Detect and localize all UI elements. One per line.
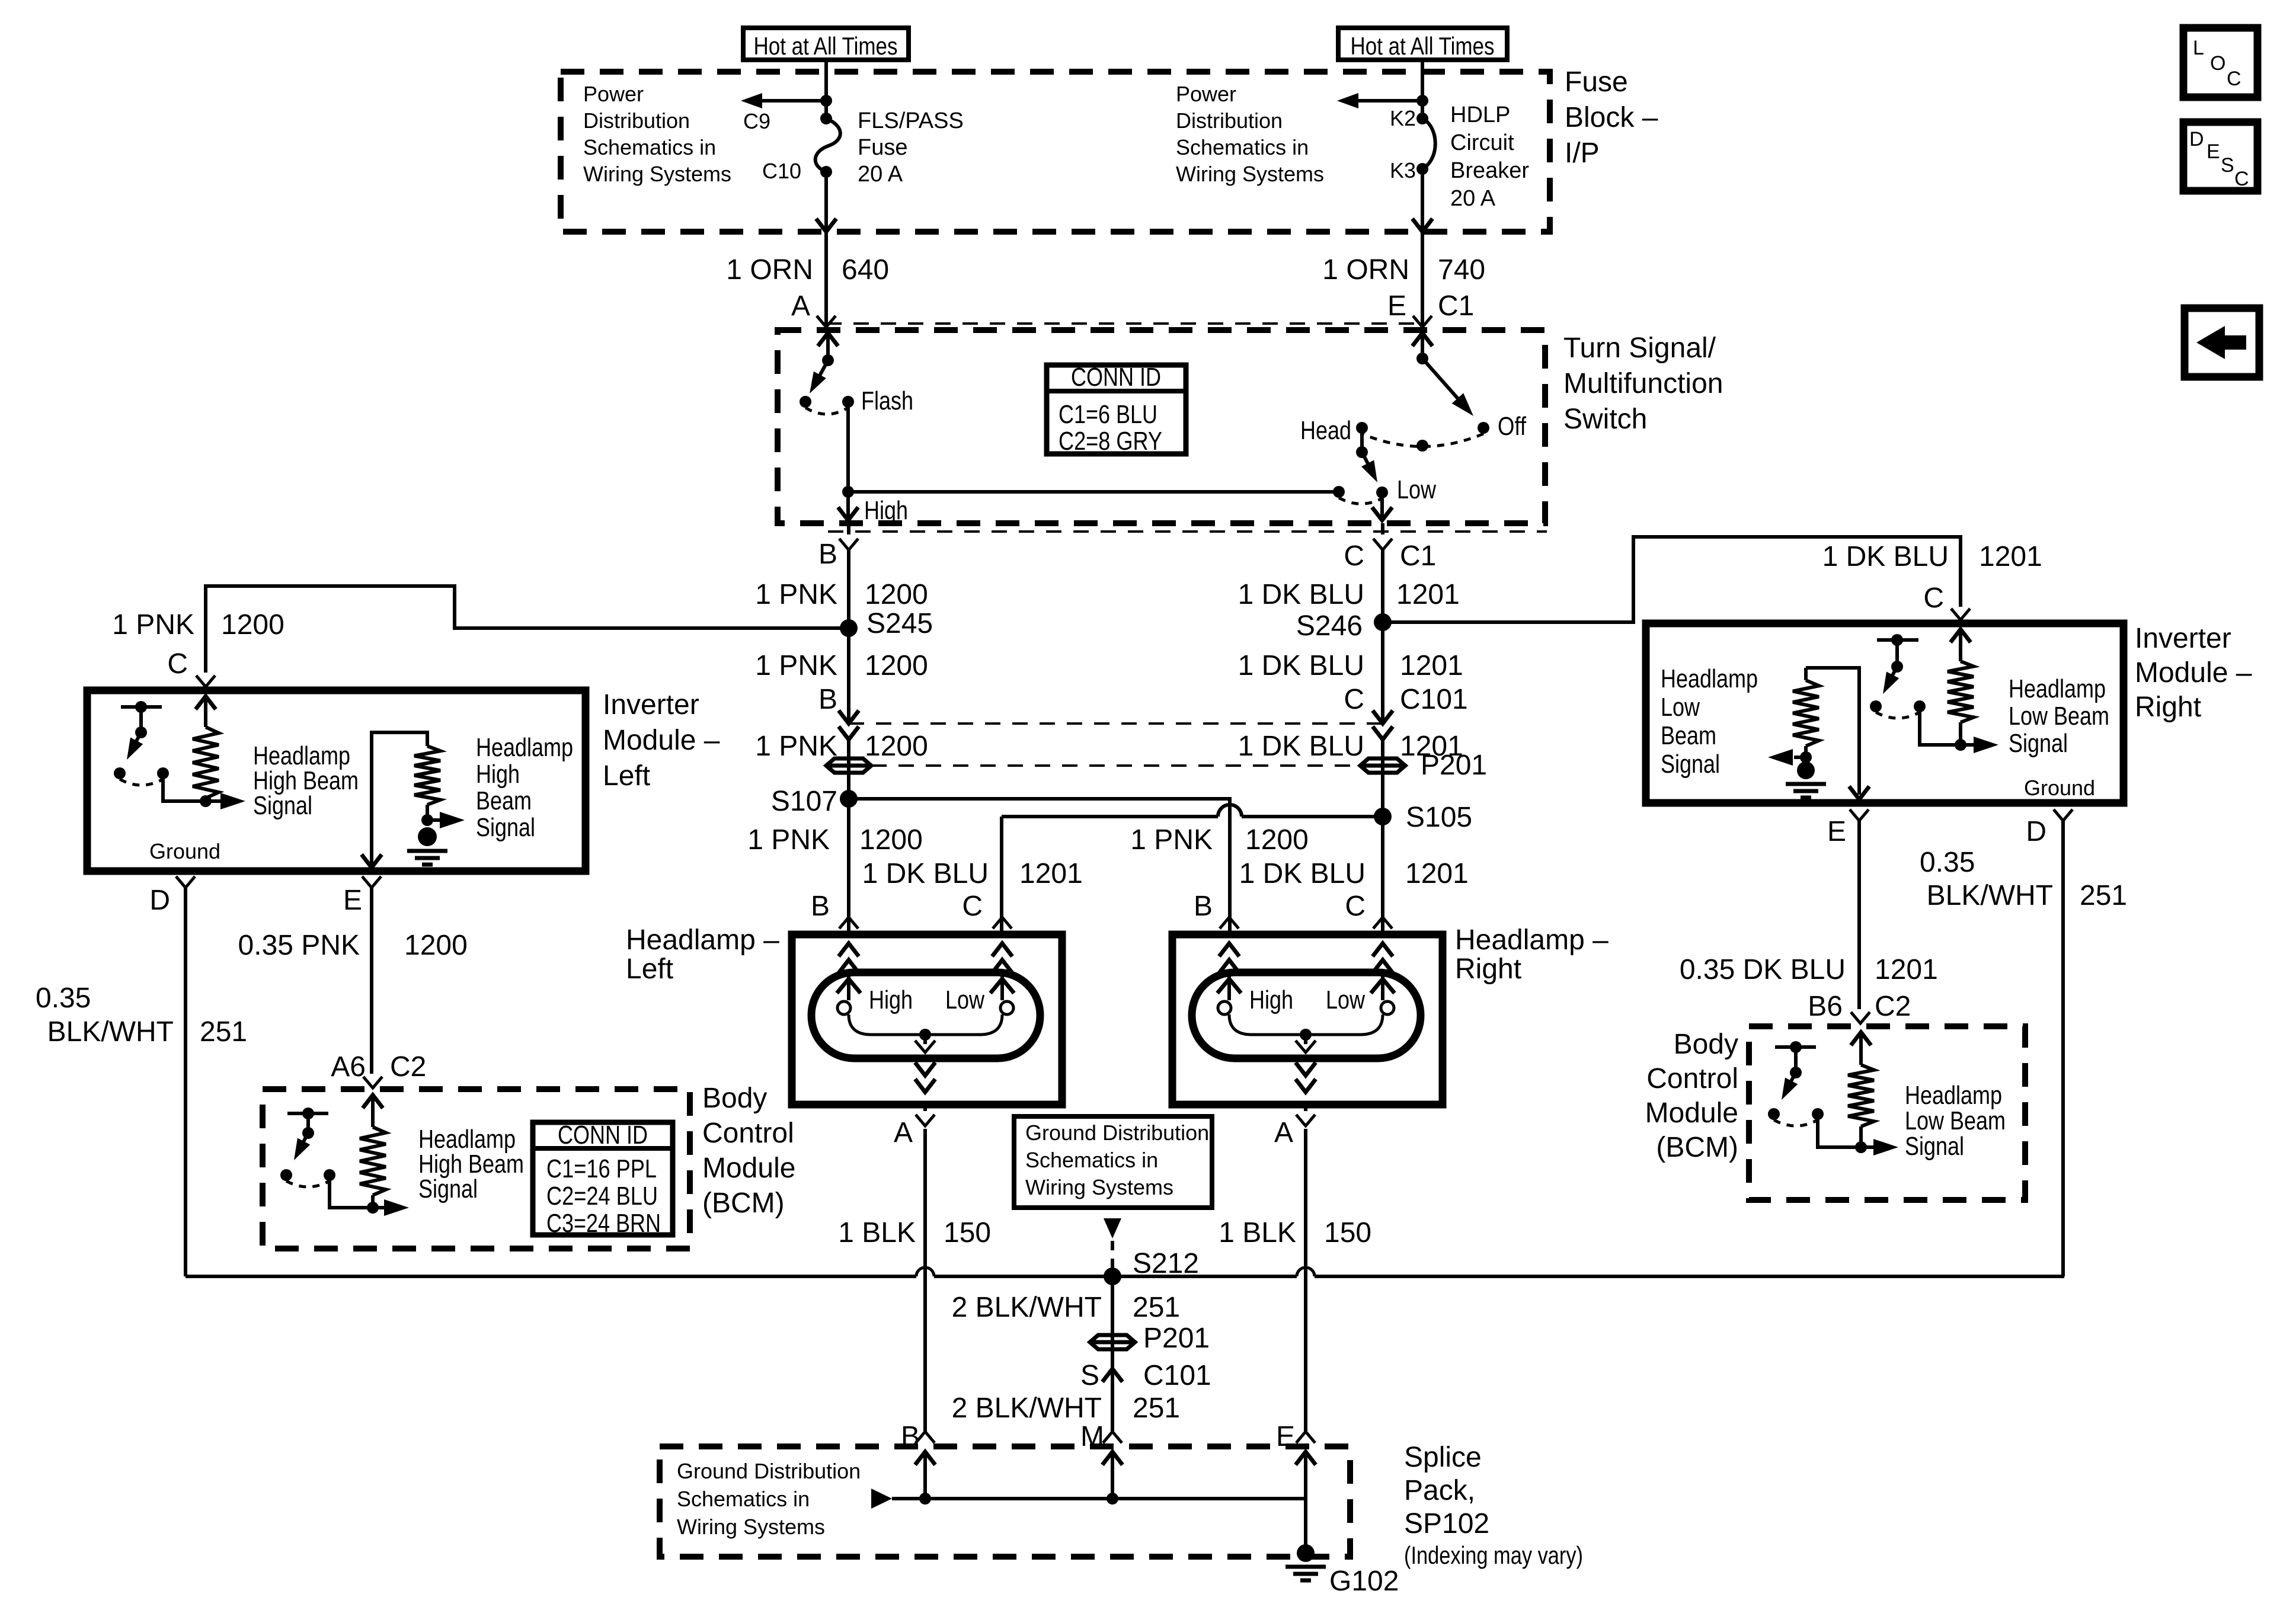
wire inverter-left E internal	[372, 732, 427, 866]
svg-text:1201: 1201	[1400, 650, 1463, 681]
wire splice to G102	[1304, 1499, 1307, 1547]
dashed wire to S212	[1111, 1241, 1114, 1269]
svg-text:G102: G102	[1329, 1566, 1399, 1597]
svg-text:C101: C101	[1400, 684, 1468, 715]
signal arrow (inv right)	[1961, 743, 1985, 747]
connector at splice E	[1296, 1432, 1315, 1443]
switch (BCM left)	[287, 1112, 328, 1115]
Hot at All Times box (right)	[1338, 28, 1507, 60]
svg-text:S: S	[2221, 154, 2234, 177]
svg-text:Low: Low	[1397, 475, 1436, 504]
svg-text:Low Beam: Low Beam	[1905, 1106, 2006, 1135]
svg-text:251: 251	[1133, 1393, 1180, 1424]
Body Control Module left dashed box	[263, 1089, 690, 1249]
entry arrow at E	[1412, 333, 1432, 346]
svg-text:Circuit: Circuit	[1450, 130, 1514, 155]
svg-text:A: A	[1274, 1117, 1293, 1148]
svg-text:1 BLK: 1 BLK	[1219, 1217, 1296, 1249]
svg-text:1 PNK: 1 PNK	[755, 579, 837, 610]
node S107	[840, 790, 858, 808]
wire from right Hot at All Times into fuse block	[1421, 60, 1424, 119]
exit arrow right feed	[1412, 219, 1432, 232]
connector P201 center symbol	[1090, 1335, 1135, 1349]
node end of High crossover	[1333, 486, 1345, 498]
svg-text:Power: Power	[583, 82, 644, 106]
svg-text:20 A: 20 A	[1450, 186, 1496, 211]
svg-text:B: B	[818, 539, 837, 570]
svg-text:S246: S246	[1296, 610, 1363, 642]
wire D right down to ground bus	[2063, 821, 2064, 1276]
ground bus wire	[186, 1275, 916, 1278]
connector at splice B	[916, 1432, 935, 1443]
arrow to Power Distribution Schematics (left)	[748, 99, 826, 103]
wire High crossover	[848, 490, 1339, 494]
svg-text:High: High	[476, 760, 520, 789]
entry arrow BCM-left	[363, 1095, 383, 1108]
exit arrow Low C	[1380, 492, 1384, 519]
svg-text:150: 150	[1324, 1217, 1371, 1249]
node Low contact	[1376, 486, 1388, 498]
svg-text:C2=8 GRY: C2=8 GRY	[1059, 427, 1162, 456]
connector C101 center	[1102, 1369, 1123, 1382]
svg-text:1 PNK: 1 PNK	[747, 824, 830, 856]
wire DK BLU 1201 main	[1381, 550, 1384, 724]
node splice B junction	[919, 1493, 931, 1505]
svg-text:1201: 1201	[1405, 858, 1469, 889]
svg-text:1200: 1200	[859, 824, 923, 856]
svg-text:Control: Control	[702, 1118, 794, 1149]
svg-text:Headlamp –: Headlamp –	[1455, 924, 1609, 956]
wire inverter-right E internal	[1806, 668, 1859, 795]
svg-text:1 PNK: 1 PNK	[755, 650, 837, 681]
wire S246 to inverter right	[1383, 537, 1961, 622]
svg-text:Headlamp: Headlamp	[476, 733, 573, 762]
connector C101 male arrows left	[839, 710, 859, 724]
svg-text:Beam: Beam	[476, 786, 532, 815]
svg-text:0.35 DK BLU: 0.35 DK BLU	[1680, 954, 1846, 985]
svg-text:Body: Body	[1674, 1029, 1738, 1060]
svg-text:Right: Right	[1455, 953, 1521, 985]
svg-text:1 DK BLU: 1 DK BLU	[1822, 541, 1949, 572]
svg-text:Inverter: Inverter	[603, 689, 699, 721]
svg-text:Wiring Systems: Wiring Systems	[677, 1515, 825, 1539]
svg-text:1 ORN: 1 ORN	[1322, 254, 1409, 286]
node Off contact	[1478, 422, 1489, 434]
svg-text:Signal: Signal	[1661, 750, 1720, 779]
node signal junction (BCM right)	[1859, 1126, 1863, 1147]
svg-text:C3=24 BRN: C3=24 BRN	[546, 1209, 661, 1238]
svg-text:0.35 PNK: 0.35 PNK	[238, 930, 360, 961]
svg-text:Ground Distribution: Ground Distribution	[677, 1459, 861, 1483]
svg-text:Wiring Systems: Wiring Systems	[1176, 162, 1324, 186]
flash switch arm	[817, 360, 828, 381]
entry arrow splice E	[1296, 1452, 1316, 1465]
svg-text:Module: Module	[1645, 1097, 1738, 1129]
entry arrow at A	[818, 333, 838, 346]
svg-text:A: A	[894, 1117, 913, 1148]
svg-text:E: E	[1827, 816, 1846, 847]
connector at splice M	[1103, 1432, 1122, 1443]
svg-text:Hot at All Times: Hot at All Times	[754, 32, 898, 60]
svg-text:Breaker: Breaker	[1450, 158, 1529, 183]
svg-text:(BCM): (BCM)	[702, 1188, 785, 1219]
entry arrow splice M	[1102, 1452, 1123, 1465]
svg-text:Low: Low	[1661, 693, 1700, 722]
svg-text:L: L	[2193, 37, 2204, 59]
svg-text:Ground: Ground	[2024, 776, 2095, 800]
connector P201 right symbol	[1360, 758, 1405, 773]
svg-text:Low: Low	[945, 985, 984, 1014]
svg-text:Splice: Splice	[1404, 1442, 1482, 1473]
Splice Pack SP102 dashed box	[660, 1446, 1350, 1557]
wire fuse to fuse-block edge	[824, 172, 828, 230]
pin D (inv right)	[2054, 809, 2073, 821]
icon DESC box	[2183, 122, 2257, 191]
svg-text:Right: Right	[2135, 692, 2201, 723]
resistor low-beam signal (right module)	[1804, 668, 1808, 680]
node S245	[840, 619, 858, 637]
dashed arc flash switch	[805, 408, 848, 414]
svg-text:B: B	[1194, 891, 1213, 922]
wire breaker to fuse-block edge	[1421, 169, 1424, 230]
connector at A	[817, 316, 836, 327]
svg-text:C2: C2	[1875, 991, 1911, 1022]
svg-text:C: C	[2234, 168, 2249, 190]
svg-text:(Indexing may vary): (Indexing may vary)	[1404, 1541, 1583, 1569]
node junction on right feed	[1416, 95, 1428, 107]
svg-text:K3: K3	[1390, 158, 1416, 183]
svg-text:C: C	[167, 648, 188, 680]
svg-text:Distribution: Distribution	[1176, 108, 1283, 133]
resistor high-beam signal (BCM left)	[360, 1127, 386, 1195]
svg-text:C1: C1	[1438, 290, 1474, 322]
svg-text:A: A	[791, 290, 810, 322]
svg-text:Switch: Switch	[1563, 404, 1647, 435]
svg-text:Off: Off	[1498, 412, 1527, 441]
svg-text:High: High	[864, 496, 908, 525]
svg-text:Low: Low	[1326, 985, 1365, 1014]
connector C101 dashed line	[849, 722, 1383, 725]
circuit breaker HDLP 20A symbol	[1416, 113, 1428, 124]
svg-text:Block –: Block –	[1565, 102, 1658, 133]
svg-text:2 BLK/WHT: 2 BLK/WHT	[952, 1393, 1102, 1424]
svg-text:1 ORN: 1 ORN	[726, 254, 813, 286]
switch (BCM right)	[1775, 1045, 1816, 1049]
CONN ID table (BCM left)	[533, 1122, 673, 1235]
svg-text:Signal: Signal	[253, 791, 312, 820]
svg-text:Schematics in: Schematics in	[583, 135, 716, 159]
low-beam relay switch (inv right)	[1877, 638, 1918, 642]
signal arrow 2 (inv left)	[427, 818, 452, 822]
svg-text:C10: C10	[762, 159, 801, 183]
wire PNK 1200 segment 1	[847, 550, 850, 724]
svg-text:1 PNK: 1 PNK	[1130, 824, 1213, 856]
head switch arm to Low	[1362, 452, 1370, 468]
node splice M junction	[1107, 1493, 1118, 1505]
svg-text:C101: C101	[1143, 1360, 1211, 1391]
svg-text:Flash: Flash	[861, 386, 913, 415]
svg-text:1200: 1200	[865, 579, 928, 610]
svg-text:CONN ID: CONN ID	[558, 1121, 648, 1150]
resistor high-beam signal (left module)	[414, 746, 440, 805]
svg-text:BLK/WHT: BLK/WHT	[47, 1016, 174, 1048]
svg-text:Distribution: Distribution	[583, 108, 690, 133]
wire A feed ORN 640	[824, 232, 828, 330]
pin D (inv left)	[176, 876, 195, 888]
svg-text:1 DK BLU: 1 DK BLU	[1238, 579, 1364, 610]
svg-text:0.35: 0.35	[1920, 847, 1975, 878]
ground symbol (inv right)	[1797, 761, 1815, 779]
svg-text:I/P: I/P	[1565, 137, 1600, 169]
svg-text:Headlamp: Headlamp	[2009, 674, 2106, 703]
wire right headlamp A to splice	[1304, 1129, 1307, 1432]
arrow to Power Distribution Schematics (right)	[1344, 99, 1422, 103]
svg-text:P201: P201	[1421, 750, 1487, 781]
wire D down to ground bus	[184, 888, 187, 1276]
svg-text:Signal: Signal	[2009, 729, 2068, 758]
svg-text:0.35: 0.35	[36, 982, 91, 1014]
signal arrow 2 (inv right)	[1794, 756, 1806, 759]
head switch pivot	[1416, 353, 1428, 364]
svg-text:Low Beam: Low Beam	[2009, 702, 2109, 731]
Turn Signal/Multifunction Switch dashed box	[778, 330, 1545, 523]
svg-text:Signal: Signal	[1905, 1132, 1964, 1161]
head switch lower pivot	[1356, 446, 1368, 458]
wire S245 branch to inverter left	[206, 586, 849, 673]
icon back-arrow box	[2185, 308, 2259, 377]
node S246	[1374, 613, 1392, 631]
svg-text:Pack,: Pack,	[1404, 1475, 1475, 1506]
svg-text:Module –: Module –	[603, 725, 720, 756]
svg-text:1200: 1200	[1245, 824, 1309, 856]
svg-text:Multifunction: Multifunction	[1563, 368, 1723, 399]
node junction on left feed	[820, 95, 832, 107]
svg-text:S107: S107	[771, 786, 837, 817]
svg-text:Schematics in: Schematics in	[677, 1487, 810, 1511]
dashed arc to Low contact	[1339, 498, 1382, 504]
connector at inverter-left C	[196, 676, 215, 687]
svg-text:1 DK BLU: 1 DK BLU	[1238, 650, 1364, 681]
node High junction	[842, 486, 854, 498]
svg-text:Left: Left	[603, 760, 650, 792]
svg-text:C1=6 BLU: C1=6 BLU	[1059, 400, 1157, 429]
pin E (inv right)	[1850, 809, 1869, 821]
svg-text:D: D	[2189, 128, 2204, 151]
wire E feed ORN 740	[1421, 232, 1424, 330]
svg-text:Beam: Beam	[1661, 721, 1716, 750]
svg-text:C2=24 BLU: C2=24 BLU	[546, 1182, 658, 1211]
svg-text:1200: 1200	[865, 731, 928, 762]
resistor low-beam signal (BCM right)	[1848, 1065, 1874, 1126]
svg-text:C: C	[1345, 891, 1366, 922]
svg-text:SP102: SP102	[1404, 1508, 1489, 1539]
pin E (inv left)	[362, 876, 381, 888]
connector at BCM-left	[363, 1077, 382, 1088]
svg-text:Schematics in: Schematics in	[1025, 1148, 1158, 1172]
high-beam relay switch (inv left)	[121, 705, 162, 709]
connector P201 left symbol	[826, 758, 871, 773]
svg-text:251: 251	[200, 1016, 247, 1048]
svg-text:1 DK BLU: 1 DK BLU	[862, 858, 989, 889]
svg-text:1 PNK: 1 PNK	[112, 609, 194, 641]
svg-text:Inverter: Inverter	[2135, 623, 2231, 654]
wire left headlamp C	[1002, 815, 1218, 818]
ground G102 symbol	[1297, 1544, 1315, 1562]
svg-text:HDLP: HDLP	[1450, 103, 1510, 127]
svg-text:K2: K2	[1390, 106, 1416, 130]
wire S107 to right headlamp B	[849, 799, 1230, 934]
svg-text:Hot at All Times: Hot at All Times	[1351, 32, 1495, 60]
flash switch common contact	[800, 396, 811, 408]
svg-text:Signal: Signal	[476, 813, 535, 842]
node signal junction (inv left)	[200, 795, 212, 807]
svg-text:1 BLK: 1 BLK	[838, 1217, 916, 1249]
wire S212 to splice M	[1111, 1276, 1114, 1432]
node S105	[1374, 808, 1392, 825]
svg-text:1200: 1200	[865, 650, 928, 681]
wire PNK below C101	[847, 740, 850, 934]
svg-text:1201: 1201	[1979, 541, 2042, 572]
svg-text:2 BLK/WHT: 2 BLK/WHT	[952, 1292, 1102, 1323]
svg-text:Module: Module	[702, 1153, 795, 1184]
Headlamp - Left box	[792, 934, 1062, 1105]
signal arrow (inv left)	[206, 799, 232, 803]
svg-text:640: 640	[842, 254, 889, 286]
svg-text:1 DK BLU: 1 DK BLU	[1238, 731, 1364, 762]
svg-text:(BCM): (BCM)	[1656, 1132, 1738, 1163]
svg-text:D: D	[149, 885, 170, 916]
svg-text:Turn Signal/: Turn Signal/	[1563, 332, 1716, 364]
svg-text:Headlamp: Headlamp	[1905, 1081, 2002, 1110]
wire Head contact stub	[1360, 428, 1364, 452]
connector P201 dashed line	[871, 764, 1360, 767]
Headlamp - Right box	[1172, 934, 1443, 1105]
svg-text:Wiring Systems: Wiring Systems	[1025, 1175, 1173, 1199]
exit arrow High B	[846, 492, 850, 519]
svg-text:C: C	[1344, 684, 1364, 715]
svg-text:Power: Power	[1176, 82, 1236, 106]
svg-text:S105: S105	[1406, 802, 1472, 833]
connector at inverter-right C	[1951, 609, 1970, 620]
svg-text:Control: Control	[1646, 1063, 1738, 1094]
wire from left Hot at All Times into fuse block	[824, 60, 828, 119]
svg-text:C1: C1	[1400, 540, 1436, 572]
svg-text:E: E	[2207, 140, 2220, 163]
svg-text:20 A: 20 A	[858, 162, 903, 187]
Fuse Block I/P dashed box	[561, 72, 1550, 232]
svg-text:1 PNK: 1 PNK	[755, 731, 837, 762]
svg-text:S: S	[1080, 1360, 1099, 1391]
resistor high-beam feed (left)	[193, 727, 219, 798]
Body Control Module right dashed box	[1749, 1026, 2025, 1200]
svg-text:S245: S245	[866, 608, 933, 639]
svg-text:1201: 1201	[1396, 579, 1460, 610]
wire resistor to signal node	[204, 798, 207, 801]
connector at BCM-right	[1851, 1012, 1870, 1023]
fuse FLS/PASS 20A symbol	[820, 113, 832, 124]
ground symbol (inv left)	[418, 827, 437, 846]
svg-text:P201: P201	[1143, 1323, 1210, 1354]
signal arrow (BCM right)	[1861, 1145, 1885, 1149]
Inverter Module - Left box	[87, 690, 586, 871]
Hot at All Times box (left)	[743, 28, 909, 60]
wire left headlamp A to splice	[923, 1129, 927, 1432]
svg-text:Module –: Module –	[2135, 657, 2252, 689]
flash switch pivot	[822, 354, 834, 366]
connector at B	[839, 539, 858, 550]
svg-text:1 DK BLU: 1 DK BLU	[1239, 858, 1366, 889]
node signal junction (BCM left)	[371, 1195, 375, 1208]
svg-text:150: 150	[944, 1217, 991, 1249]
svg-text:O: O	[2210, 52, 2225, 75]
svg-text:E: E	[343, 885, 362, 916]
connector C101 male arrows right	[1373, 710, 1393, 724]
svg-text:Ground: Ground	[149, 839, 220, 863]
head switch arm to Off	[1422, 359, 1459, 400]
svg-text:1201: 1201	[1019, 858, 1083, 889]
svg-text:C9: C9	[743, 109, 770, 133]
icon LOC box	[2183, 28, 2257, 97]
svg-text:251: 251	[1133, 1292, 1180, 1323]
node arc middle dot	[1416, 440, 1428, 452]
svg-text:A6: A6	[331, 1051, 366, 1083]
entry arrow splice B	[915, 1452, 935, 1465]
node Flash contact	[842, 396, 854, 408]
svg-text:High: High	[869, 985, 913, 1014]
exit arrow left feed	[816, 219, 836, 232]
svg-text:Left: Left	[626, 953, 673, 985]
node S212	[1104, 1267, 1121, 1285]
svg-text:1201: 1201	[1875, 954, 1938, 985]
signal arrow (BCM left)	[373, 1206, 396, 1209]
svg-text:Body: Body	[702, 1083, 767, 1114]
node signal junction 2 (inv left)	[426, 805, 429, 820]
CONN ID table (turn switch)	[1047, 365, 1186, 454]
wire E to BCM right	[1857, 821, 1861, 1009]
Ground Distribution Schematics box	[1014, 1116, 1212, 1208]
svg-text:CONN ID: CONN ID	[1071, 363, 1161, 392]
connector C1 dashed line (top)	[826, 322, 1422, 325]
entry arrow BCM-right	[1851, 1032, 1871, 1045]
svg-text:Head: Head	[1300, 416, 1351, 445]
svg-text:Ground Distribution: Ground Distribution	[1025, 1121, 1209, 1145]
entry arrow inverter-left C	[196, 696, 216, 709]
svg-text:1200: 1200	[221, 609, 284, 641]
wire DK BLU below C101	[1381, 740, 1384, 934]
splice internal bus	[892, 1497, 1306, 1500]
svg-text:C: C	[1344, 540, 1364, 572]
svg-text:C: C	[1923, 582, 1944, 614]
svg-text:Fuse: Fuse	[858, 135, 907, 160]
dashed arc Off-Head	[1362, 434, 1483, 447]
svg-text:B: B	[818, 684, 837, 715]
svg-text:C1=16 PPL: C1=16 PPL	[546, 1154, 657, 1183]
svg-text:Schematics in: Schematics in	[1176, 135, 1309, 159]
svg-text:BLK/WHT: BLK/WHT	[1927, 880, 2053, 911]
entry arrow inverter-right C	[1950, 629, 1971, 642]
wire E to BCM left	[370, 888, 373, 1074]
svg-text:E: E	[1387, 290, 1406, 322]
svg-text:C2: C2	[390, 1051, 426, 1083]
svg-text:C: C	[2227, 68, 2241, 90]
node signal junction 2 (inv right)	[1804, 746, 1808, 757]
svg-text:Headlamp: Headlamp	[1661, 664, 1758, 693]
node Head contact	[1356, 422, 1368, 434]
node signal junction (inv right)	[1959, 722, 1962, 745]
svg-text:FLS/PASS: FLS/PASS	[858, 108, 964, 133]
svg-text:B6: B6	[1808, 991, 1843, 1022]
connector C1 dashed line (bottom)	[828, 530, 1547, 533]
